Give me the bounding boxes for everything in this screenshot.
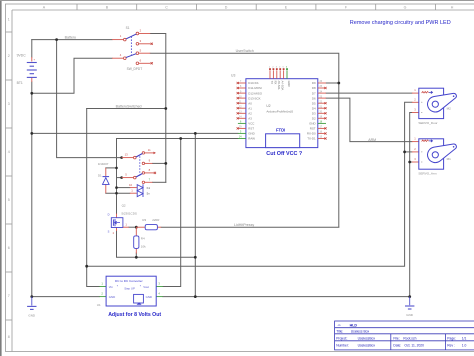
svg-text:G: G	[404, 6, 407, 10]
svg-text:HLD: HLD	[350, 323, 358, 327]
svg-text:A0: A0	[248, 101, 252, 105]
svg-text:M1: M1	[447, 157, 451, 161]
svg-text:M2: M2	[447, 107, 451, 111]
svg-text:GND: GND	[309, 122, 315, 126]
servo M1 SERVO_Arm	[412, 137, 456, 176]
svg-text:10: 10	[129, 183, 133, 187]
svg-text:BatterySwitched: BatterySwitched	[116, 104, 142, 108]
svg-text:Rev :: Rev :	[447, 344, 455, 348]
chip left pins	[237, 81, 263, 141]
svg-text:ArduinoProMini(m)5: ArduinoProMini(m)5	[266, 109, 293, 113]
svg-text:FTDI: FTDI	[276, 128, 285, 133]
svg-text:R4: R4	[141, 236, 145, 240]
svg-text:RST: RST	[310, 127, 316, 131]
svg-text:A1: A1	[248, 106, 252, 110]
wire GND bottom bus right	[163, 296, 410, 298]
wire GND bottom bus left	[32, 296, 100, 298]
wire R4 bottom link	[135, 253, 137, 257]
svg-text:D4: D4	[312, 106, 316, 110]
svg-text:GND: GND	[406, 313, 414, 317]
title block	[335, 321, 474, 350]
svg-text:220R: 220R	[152, 218, 160, 222]
wire coil pin1 tap	[117, 187, 130, 189]
wire relay throw9 to vertical	[153, 162, 166, 164]
svg-text:10k: 10k	[141, 245, 146, 249]
wire servo M1 pin2 stub	[405, 151, 412, 153]
svg-text:Title:: Title:	[336, 329, 343, 333]
svg-text:Adjust for 8 Volts Out: Adjust for 8 Volts Out	[108, 312, 161, 318]
svg-text:1.0: 1.0	[462, 344, 467, 348]
svg-text:U2: U2	[266, 104, 270, 108]
ground GND left	[27, 297, 36, 318]
svg-text:Useless Box: Useless Box	[351, 329, 370, 333]
svg-text:Project:: Project:	[336, 336, 347, 340]
relay K1 contacts (DPDT)	[122, 148, 156, 184]
svg-text:Si2301CDS: Si2301CDS	[121, 211, 137, 215]
svg-text:File:: File:	[393, 336, 399, 340]
svg-text:3: 3	[8, 102, 10, 106]
wire ARM D6 to servo M1 pin1	[326, 98, 412, 141]
wire S1 throw1 down to relay throws	[150, 34, 166, 183]
wire battery+ to S1 pole1	[32, 39, 112, 41]
resistor R4 10k	[134, 227, 146, 253]
svg-text:Page:: Page:	[447, 336, 456, 340]
svg-text:Vout: Vout	[143, 285, 149, 289]
svg-text:Date:: Date:	[393, 344, 401, 348]
wire battery+ down to relay pole1	[57, 40, 122, 158]
chip right pins	[307, 81, 327, 141]
servo horn M2	[428, 93, 457, 112]
svg-text:Vin: Vin	[109, 285, 114, 289]
svg-text:RX-D0: RX-D0	[307, 132, 316, 136]
diode D1 1N4007	[98, 162, 109, 193]
svg-text:GND: GND	[146, 295, 152, 299]
servo M2 SERVO_Door	[412, 88, 456, 125]
svg-text:GND: GND	[109, 295, 115, 299]
window edge sliver	[0, 0, 2, 356]
svg-text:5: 5	[8, 198, 10, 202]
svg-text:SERVO_Door: SERVO_Door	[418, 121, 437, 125]
wire servo M1 pin3 stub	[410, 161, 412, 163]
svg-text:13: 13	[125, 152, 129, 156]
svg-text:D12-MISO: D12-MISO	[248, 91, 262, 95]
svg-text:R3: R3	[142, 218, 146, 222]
svg-text:-in: -in	[337, 323, 340, 327]
resistor R3 220R	[136, 218, 161, 230]
svg-text:D: D	[108, 213, 110, 217]
svg-text:D9: D9	[312, 81, 316, 85]
svg-text:C: C	[165, 6, 168, 10]
wire D9 stub to UserSwitch vertical	[326, 82, 339, 84]
wire D7 to servo M2 pin1	[326, 92, 412, 94]
svg-text:Root.sch: Root.sch	[403, 336, 416, 340]
svg-text:9VDC: 9VDC	[17, 54, 27, 58]
chip top pins	[269, 66, 291, 90]
wire LidHitPressy R3 to UserSwitch vertical	[161, 226, 339, 228]
svg-text:1: 1	[8, 18, 10, 22]
svg-text:Step UP: Step UP	[124, 287, 135, 291]
svg-text:D: D	[225, 6, 228, 10]
svg-text:D7: D7	[312, 91, 316, 95]
wire BatterySwitched down to DC-DC Vin	[87, 109, 100, 287]
svg-text:GND: GND	[287, 81, 291, 87]
svg-text:Oct. 11, 2020: Oct. 11, 2020	[404, 344, 424, 348]
wire gnd link vertical	[194, 133, 196, 296]
svg-text:UserSwitch: UserSwitch	[236, 49, 254, 53]
svg-text:D11-MOSI: D11-MOSI	[248, 86, 262, 90]
svg-text:VCC: VCC	[248, 122, 254, 126]
svg-text:D3: D3	[312, 112, 316, 116]
svg-text:Q2: Q2	[122, 203, 126, 207]
svg-text:RST: RST	[248, 127, 254, 131]
svg-text:1N4007: 1N4007	[98, 162, 109, 166]
svg-text:D1: D1	[98, 173, 102, 177]
svg-text:A2: A2	[248, 112, 252, 116]
wire servo GND riser	[410, 113, 412, 297]
wire Q2 gate to R3 node	[129, 226, 136, 228]
svg-text:H: H	[451, 6, 454, 10]
svg-text:S1: S1	[126, 26, 130, 30]
svg-text:SW_DPDT: SW_DPDT	[127, 67, 143, 71]
svg-text:GND: GND	[28, 314, 36, 318]
wire relay throw7 to vertical	[153, 181, 166, 183]
wire VCC bus to servo riser	[87, 102, 412, 266]
svg-text:D6: D6	[312, 96, 316, 100]
svg-text:GND: GND	[248, 132, 254, 136]
wire Vout riser to RAW	[163, 139, 181, 287]
svg-text:U1: U1	[97, 303, 101, 307]
wire battery minus vertical rail	[31, 40, 33, 57]
svg-text:2: 2	[8, 54, 10, 58]
svg-text:Battery: Battery	[65, 35, 77, 39]
svg-text:S: S	[108, 230, 110, 234]
wire GND bus to chip GND pin	[32, 132, 238, 134]
DC-DC converter U1	[97, 276, 163, 318]
svg-text:8: 8	[8, 335, 10, 339]
wire relay pole2 feed	[117, 177, 122, 179]
svg-text:RAW: RAW	[248, 137, 255, 141]
svg-text:11: 11	[148, 148, 151, 152]
wire RAW feed to chip RAW pin	[117, 138, 238, 140]
svg-text:4: 4	[8, 150, 10, 154]
relay K1 coil	[129, 183, 151, 197]
svg-text:Cut Off VCC ?: Cut Off VCC ?	[266, 151, 302, 157]
servo horn M1	[428, 144, 457, 163]
svg-text:K1: K1	[147, 186, 151, 190]
svg-text:A4-SDA: A4-SDA	[280, 81, 284, 91]
wire BatterySwitched horizontal	[87, 108, 166, 110]
svg-text:D13-SCK: D13-SCK	[248, 96, 260, 100]
svg-text:SERVO_Arm: SERVO_Arm	[418, 171, 437, 175]
svg-text:Number:: Number:	[336, 344, 349, 348]
wire D1 top tap	[106, 167, 117, 169]
FTDI connector box	[266, 128, 300, 148]
wire relay left rail lower to gnd link	[117, 231, 196, 257]
svg-text:BT1: BT1	[17, 81, 23, 85]
svg-text:6: 6	[8, 246, 10, 250]
svg-text:U3: U3	[231, 73, 235, 77]
wire relay left rail upper	[116, 139, 118, 214]
switch S1 SW_DPDT	[112, 26, 153, 71]
svg-text:1/1: 1/1	[462, 336, 467, 340]
svg-text:UselessBox: UselessBox	[358, 336, 376, 340]
svg-text:TX-D1: TX-D1	[307, 137, 316, 141]
svg-text:D10-SS: D10-SS	[248, 81, 258, 85]
svg-text:5v: 5v	[147, 192, 151, 196]
svg-text:7: 7	[8, 294, 10, 298]
svg-text:ARM: ARM	[368, 138, 376, 142]
svg-text:DC to DC Converter: DC to DC Converter	[115, 279, 143, 283]
battery BT1	[17, 54, 37, 85]
op-amp U2 ArduinoProMini body	[231, 73, 318, 147]
transistor Q2 Si2301CDS	[108, 203, 137, 235]
svg-text:D2: D2	[312, 117, 316, 121]
svg-text:LidHitPressy: LidHitPressy	[234, 223, 254, 227]
svg-text:Remove charging circuitry and: Remove charging circuitry and PWR LED	[350, 20, 451, 26]
svg-text:D5: D5	[312, 101, 316, 105]
wire UserSwitch S1 throw5 to D9 and down	[150, 53, 338, 227]
wire D1 bottom tap and coil pin2	[106, 192, 130, 194]
svg-text:UselessBox: UselessBox	[358, 344, 376, 348]
svg-text:D8: D8	[312, 86, 316, 90]
wire S1 pole2 to battery minus	[32, 58, 112, 93]
svg-text:A3: A3	[248, 117, 252, 121]
ground GND right	[405, 297, 414, 317]
